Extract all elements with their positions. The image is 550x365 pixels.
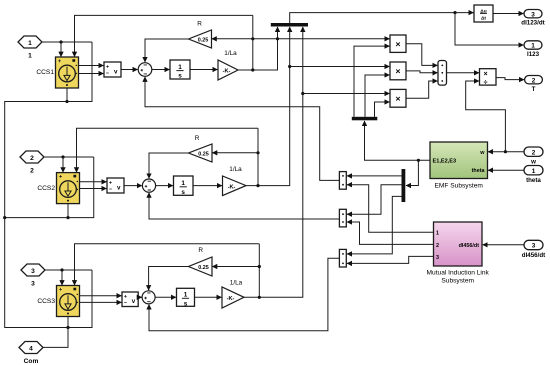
svg-text:4: 4 [29, 345, 33, 352]
svg-text:3: 3 [31, 281, 35, 288]
product block P2 [390, 62, 406, 80]
node junction inport1 [59, 40, 62, 43]
svg-text:3: 3 [436, 255, 439, 261]
svg-text:2: 2 [30, 168, 34, 175]
svg-text:÷: ÷ [484, 80, 488, 87]
wire gain3 branch up feedback [258, 244, 260, 297]
wire sum1 bottom input chain from adder A [145, 77, 339, 180]
wire to gain R1 input [212, 38, 253, 40]
svg-text:CCS3: CCS3 [37, 298, 55, 305]
svg-text:v: v [132, 298, 136, 305]
wire to derivative block [455, 12, 473, 14]
wire integrator3 to gain 1/La row3 [195, 296, 222, 298]
wire feedback row3 to CCS3 pin2 [75, 244, 260, 285]
wire product2 out to mux4 [406, 71, 437, 73]
svg-text:1: 1 [28, 40, 32, 47]
svg-text:3: 3 [31, 268, 35, 275]
voltage sensor v1 [104, 62, 121, 77]
svg-text:I123: I123 [527, 51, 540, 58]
svg-text:×: × [395, 66, 400, 76]
svg-text:theta: theta [472, 168, 486, 174]
current source CCS1 [56, 57, 79, 88]
wire sum2 to integrator2 [156, 185, 173, 187]
wire current1 to product1 [253, 38, 390, 40]
svg-text:1: 1 [532, 168, 536, 175]
svg-text:×: × [395, 39, 400, 49]
wire gain1 output to mux1 [238, 27, 278, 70]
node EMF branch [417, 159, 420, 162]
svg-text:3: 3 [531, 11, 535, 18]
svg-text:-K-: -K- [228, 184, 236, 190]
svg-text:w: w [479, 150, 485, 156]
svg-text:w: w [530, 159, 536, 166]
wire current3 to product3 [303, 93, 390, 95]
inport 1 theta [524, 166, 543, 175]
svg-text:1/La: 1/La [230, 280, 243, 287]
current source CCS3 [57, 286, 80, 317]
svg-text:theta: theta [526, 177, 541, 184]
wire gain1 branch up [252, 15, 254, 70]
wire mutual out1 to adder A in2 [347, 185, 434, 233]
gain R3 0.25 row3 [189, 257, 213, 276]
node gain3 R tap [258, 265, 261, 268]
svg-text:v: v [114, 69, 118, 76]
wire feedback row1 from gain output to CCS1 pin2 [75, 15, 253, 56]
wire CCS1 bottom stub [66, 88, 68, 102]
svg-text:1: 1 [436, 231, 439, 237]
wire EMF output bus [365, 121, 431, 160]
wire mutual out3 to adder C in2 [347, 256, 434, 263]
svg-text:1: 1 [531, 43, 535, 50]
wire CCS3 out2 to voltage sensor [80, 301, 122, 303]
node w tap [504, 150, 507, 153]
wire row2 bottom loop [5, 157, 94, 218]
svg-text:s: s [178, 73, 182, 80]
wire current2 to product2 [290, 66, 390, 68]
voltage sensor v2 [107, 178, 124, 193]
EMF subsystem block [430, 142, 488, 179]
wire gain3 output to mux1 [244, 27, 303, 297]
gain 1/La row1 [218, 60, 238, 80]
wire gain R3 output to sum3 top [149, 267, 189, 291]
adder C [339, 249, 346, 267]
gain 1/La row2 [223, 176, 247, 196]
wire inport1 to CCS1 junction [42, 41, 92, 43]
wire product1 out to mux4 [406, 44, 437, 66]
integrator 1/s row1 [170, 60, 190, 80]
svg-text:Subsystem: Subsystem [441, 278, 474, 285]
svg-text:s: s [181, 189, 185, 196]
node current2 product tap [288, 65, 291, 68]
svg-text:1: 1 [181, 180, 185, 187]
wire CCS2 bottom stub [67, 204, 69, 218]
mux1 bar I123 [271, 23, 308, 27]
svg-text:Δt: Δt [481, 16, 486, 22]
wire gain2 output to mux1 [246, 27, 290, 186]
wire bar2 out2 to product2 in2 [365, 75, 389, 117]
node junction inport2 [61, 155, 64, 158]
wire w to divide input [466, 81, 506, 152]
svg-text:CCS1: CCS1 [36, 69, 54, 76]
inport 2 w [524, 147, 543, 156]
wire integrator2 to gain 1/La row2 [193, 185, 222, 187]
svg-text:R: R [197, 21, 202, 28]
svg-text:×: × [484, 71, 488, 78]
svg-text:×: × [395, 93, 400, 103]
integrator 1/s row3 [177, 288, 195, 307]
current source CCS2 [57, 173, 80, 204]
wire junction down into CCS2 pin1 [62, 157, 64, 172]
outport 2 T [525, 76, 543, 85]
wire to outport I123 [455, 13, 523, 45]
wire derivative to outport dI123/dt [493, 13, 523, 15]
sum block sum2 [142, 179, 155, 192]
adder A [339, 172, 346, 190]
sum block sum1 [138, 63, 152, 77]
wire to gain R3 input [212, 266, 259, 268]
wire v1 to sum1 [121, 69, 138, 71]
wire mux3 out1 to adder A [347, 175, 402, 177]
wire v3 to sum3 [138, 296, 142, 298]
wire sum3 bottom input from adder C [149, 258, 339, 331]
node row2 com tap [3, 216, 6, 219]
svg-text:1: 1 [28, 53, 32, 60]
wire sum3 to integrator3 [155, 296, 176, 298]
sum block sum3 [142, 291, 155, 304]
product block P1 [390, 35, 406, 52]
wire com inport4 to CCS3 bottom [43, 328, 68, 348]
wire CCS1 out2 to voltage sensor [79, 73, 104, 75]
svg-text:dI456/dt: dI456/dt [522, 252, 545, 259]
wire to gain R2 input [212, 152, 258, 154]
divide block [480, 69, 497, 87]
mux4 vertical [438, 61, 447, 86]
node gain1 R tap [251, 37, 254, 40]
node CCS3 bottom [66, 326, 69, 329]
svg-text:dI456/dt: dI456/dt [459, 243, 480, 249]
wire mux4 to divide [447, 72, 479, 74]
svg-text:2: 2 [436, 243, 439, 249]
svg-text:2: 2 [532, 77, 536, 84]
wire inport theta to EMF [488, 169, 524, 171]
node gain1 out [251, 68, 254, 71]
svg-text:EMF Subsystem: EMF Subsystem [435, 183, 484, 190]
svg-text:v: v [117, 185, 121, 192]
node junction inport3 [60, 268, 63, 271]
wire v2 to sum2 [124, 185, 142, 187]
wire gain R2 output to sum2 top [149, 153, 189, 178]
svg-text:Mutual Induction Link: Mutual Induction Link [427, 270, 490, 277]
svg-text:1: 1 [184, 292, 188, 299]
outport 3 dI123/dt [524, 10, 542, 19]
wire CCS1 out1 to voltage sensor [79, 65, 104, 67]
wire divide to outport T [496, 78, 524, 80]
wire inport w to EMF [488, 151, 524, 153]
wire CCS2 out1 to voltage sensor [80, 181, 107, 183]
wire row1 bottom loop [5, 42, 92, 218]
svg-text:1/La: 1/La [224, 50, 237, 57]
svg-text:1/La: 1/La [229, 166, 242, 173]
node current1 mux tap [276, 37, 279, 40]
svg-text:3: 3 [532, 243, 536, 250]
integrator 1/s row2 [174, 176, 194, 196]
wire inport dI456/dt to mutual block [483, 244, 524, 246]
wire mux3 out2 to adder B [347, 185, 402, 215]
wire inport3 to CCS3 junction [45, 269, 92, 271]
wire mux1 output to top bus [290, 13, 455, 23]
node CCS2 bottom [66, 216, 69, 219]
svg-text:1: 1 [178, 64, 182, 71]
svg-text:Com: Com [24, 358, 39, 365]
svg-text:0.25: 0.25 [198, 151, 209, 157]
svg-text:CCS2: CCS2 [37, 185, 55, 192]
wire junction down into CCS1 pin1 [60, 42, 62, 57]
gain R2 0.25 row2 [189, 144, 213, 162]
svg-text:-K-: -K- [227, 296, 235, 302]
wire inport2 to CCS2 junction [44, 156, 94, 158]
wire junction down into CCS3 pin1 [61, 270, 63, 285]
voltage sensor v3 [122, 292, 138, 307]
emf demux mux3 bar [402, 169, 406, 202]
wire CCS2 out2 to voltage sensor [80, 188, 107, 190]
wire CCS3 out1 to voltage sensor [80, 295, 122, 297]
wire CCS3 bottom stub [67, 317, 69, 328]
outport 1 I123 [524, 41, 542, 50]
wire EMF branch to mux3 [406, 160, 418, 185]
wire gain2 branch up feedback [257, 128, 259, 185]
node I123 branch [453, 11, 456, 14]
svg-text:R: R [195, 135, 200, 142]
gain 1/La row3 [222, 287, 244, 308]
svg-text:E1,E2,E3: E1,E2,E3 [433, 158, 457, 164]
wire mux3 out3 to adder C [347, 196, 402, 254]
svg-text:2: 2 [30, 155, 34, 162]
wire bar2 out3 to product3 in2 [375, 102, 390, 117]
inport 3 hexagon [21, 264, 45, 276]
gain R1 0.25 row1 [189, 30, 212, 48]
svg-text:2: 2 [532, 149, 536, 156]
wire bar2 out1 to product1 in2 [354, 46, 389, 117]
wire row3 bottom loop [5, 218, 92, 328]
node gain2 out [256, 184, 259, 187]
derivative block du/dt [474, 5, 493, 22]
emf demux bar2 [352, 117, 378, 121]
mutual induction link subsystem [434, 222, 483, 266]
inport 3 dI456/dt [524, 240, 543, 249]
wire integrator1 to gain 1/La [190, 69, 217, 71]
svg-text:R: R [198, 247, 203, 254]
wire product3 out to mux4 [406, 81, 437, 98]
inport 4 hexagon Com [19, 342, 43, 354]
wire feedback row2 to CCS2 pin2 [77, 128, 259, 172]
node current3 product tap [301, 92, 304, 95]
svg-text:s: s [184, 300, 188, 307]
node gain3 out [258, 296, 261, 299]
wire sum2 bottom input from adder B [149, 193, 339, 219]
wire mutual out2 to adder B in2 [347, 222, 434, 244]
inport 1 hexagon [18, 36, 42, 48]
svg-text:dI123/dt: dI123/dt [521, 20, 544, 27]
svg-text:T: T [532, 86, 536, 93]
product block P3 [390, 89, 406, 107]
wire gain R1 output to sum1 top [145, 39, 188, 62]
inport 2 hexagon [20, 151, 44, 163]
node gain2 R tap [256, 151, 259, 154]
wire sum1 to integrator1 [152, 69, 170, 71]
adder B [339, 209, 346, 227]
svg-text:-K-: -K- [223, 68, 231, 74]
svg-text:0.25: 0.25 [198, 265, 209, 271]
svg-text:0.25: 0.25 [198, 37, 209, 43]
node CCS1 bottom [65, 100, 68, 103]
